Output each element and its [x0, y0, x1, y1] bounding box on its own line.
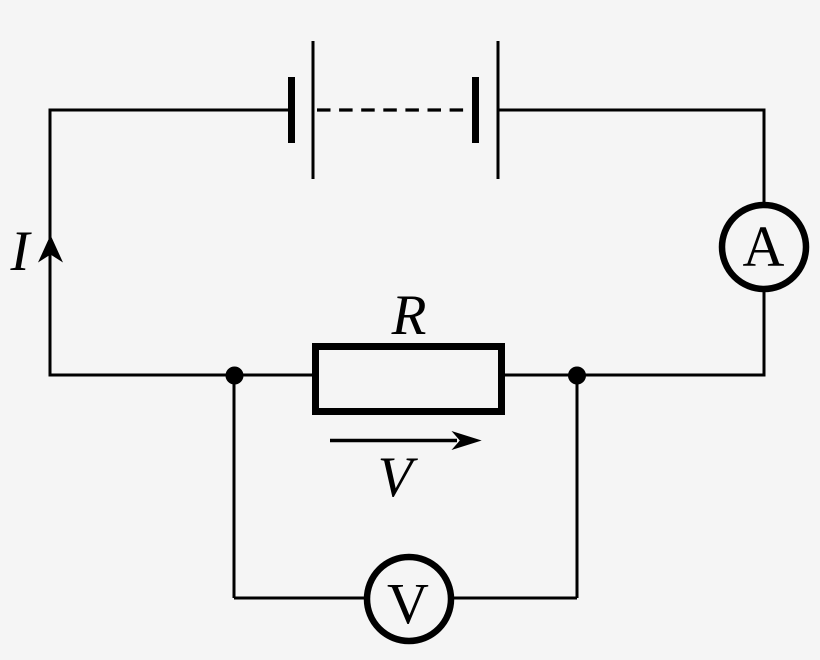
voltmeter V1 circle [367, 557, 451, 641]
node: left junction dot [226, 367, 244, 385]
wire: bottom horizontal through voltmeter [234, 597, 577, 600]
battery BT1 dashed link between cells [317, 108, 467, 111]
wire: top right horizontal from battery [499, 109, 766, 112]
current arrow head (I direction, upward) [38, 235, 63, 263]
resistor R box [316, 347, 502, 412]
svg-text:I: I [10, 220, 33, 283]
svg-text:V: V [387, 571, 429, 636]
battery BT1 cell 2 positive plate (long thin) [497, 41, 500, 179]
voltage arrow head [452, 431, 482, 450]
svg-text:R: R [391, 284, 427, 347]
voltage arrow shaft (V direction, rightward) [330, 439, 457, 443]
battery BT1 cell 1 negative plate (short thick) [288, 77, 295, 143]
wire: left vertical branch [49, 110, 52, 375]
wire: middle horizontal branch [49, 374, 766, 377]
wire: left voltmeter vertical drop [233, 375, 236, 598]
wire: right voltmeter vertical drop [576, 375, 579, 598]
battery BT1 cell 1 positive plate (long thin) [312, 41, 315, 179]
svg-text:A: A [743, 214, 785, 279]
battery BT1 cell 2 negative plate (short thick) [472, 77, 479, 143]
wire: right vertical branch through ammeter [763, 110, 766, 375]
ammeter A1 circle [722, 205, 806, 289]
svg-text:V: V [378, 446, 419, 509]
node: right junction dot [568, 367, 586, 385]
wire: top left horizontal to battery [49, 109, 291, 112]
